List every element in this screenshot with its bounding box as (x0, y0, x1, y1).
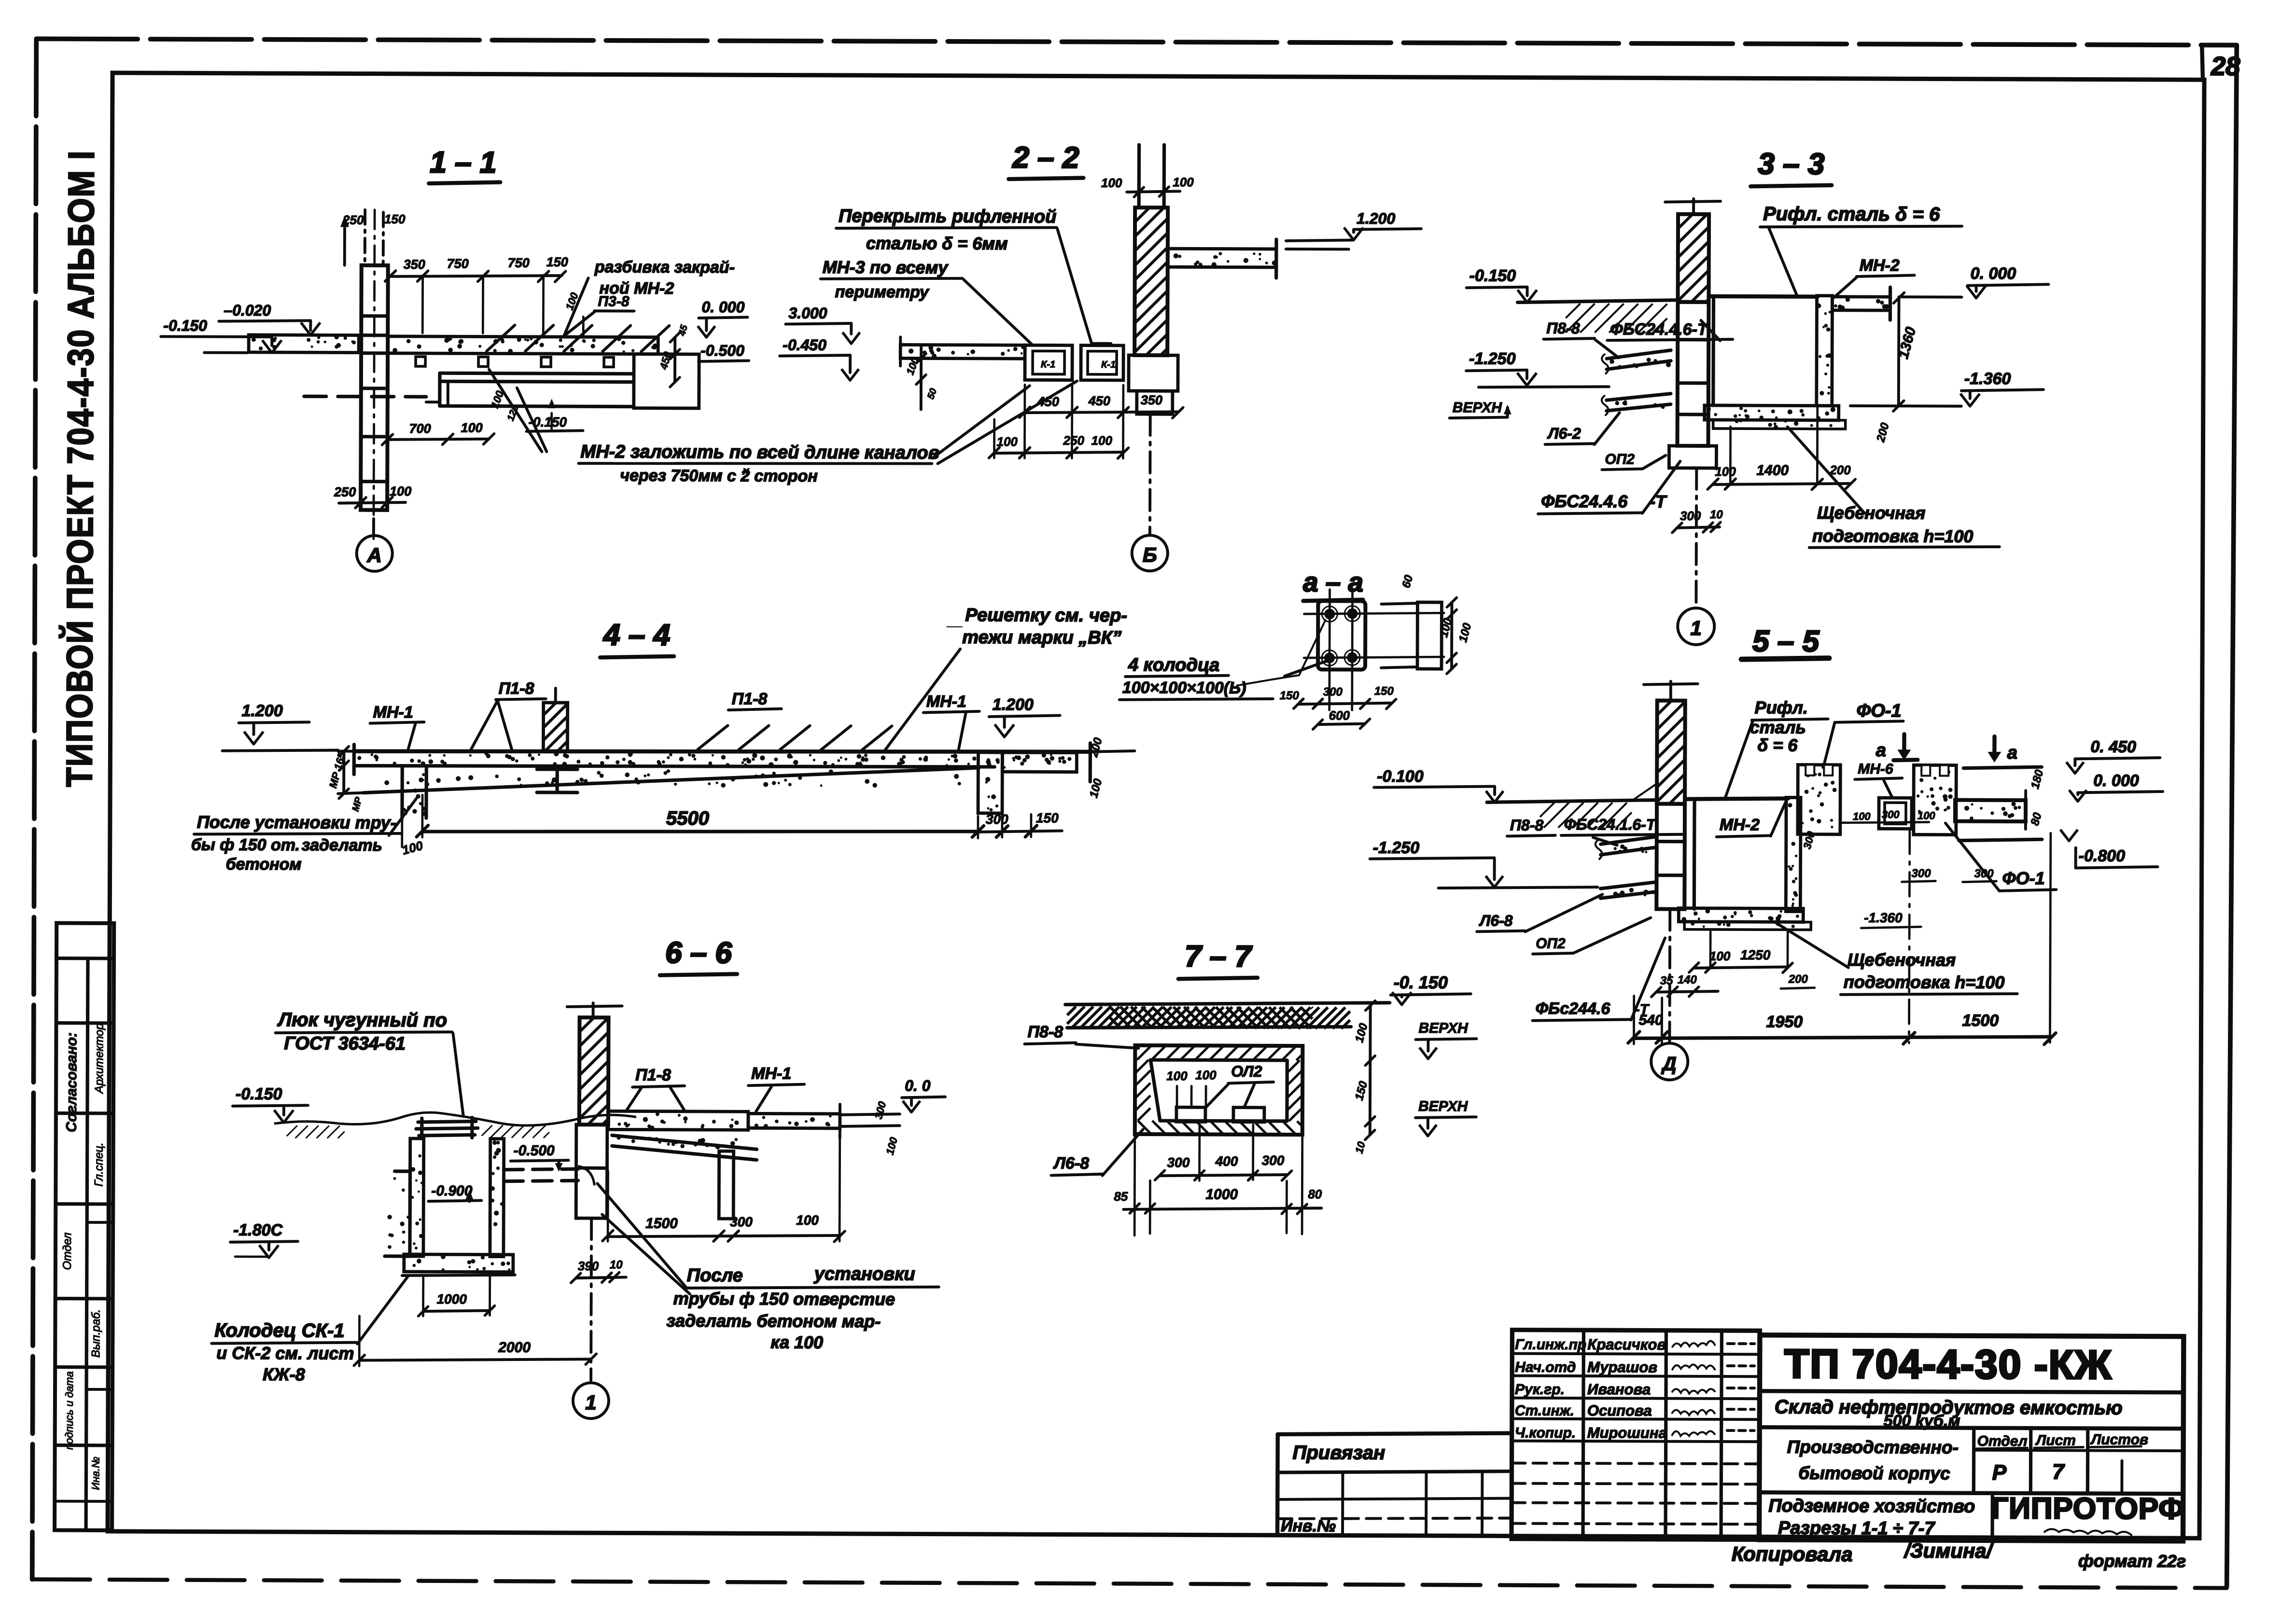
svg-text:1250: 1250 (1740, 947, 1771, 962)
pit left wall line (1711, 296, 1715, 405)
svg-text:подпись и дата: подпись и дата (63, 1371, 76, 1450)
svg-text:Копировала: Копировала (1732, 1542, 1853, 1566)
wall foundation blocks ФБС (1678, 302, 1709, 446)
bottom tapering floor line (363, 766, 979, 795)
svg-text:Мурашов: Мурашов (1587, 1359, 1657, 1375)
svg-text:и СК-2 см. лист: и СК-2 см. лист (216, 1343, 354, 1363)
svg-text:100: 100 (1853, 810, 1871, 822)
dim 600 (1318, 723, 1365, 724)
right vertical dim bracket (673, 337, 676, 382)
svg-text:ТИПОВОЙ ПРОЕКТ 704-4-30 АЛ: ТИПОВОЙ ПРОЕКТ 704-4-30 АЛЬБОМ I (58, 150, 102, 787)
section 2-2 right slab (1168, 249, 1276, 267)
bolts (1324, 609, 1335, 619)
svg-text:250: 250 (334, 485, 356, 499)
svg-text:100: 100 (1092, 433, 1113, 448)
svg-text:Рифл. сталь δ = 6: Рифл. сталь δ = 6 (1763, 203, 1940, 225)
svg-text:–0.020: –0.020 (224, 302, 271, 319)
svg-text:КЖ-8: КЖ-8 (263, 1364, 305, 1384)
svg-text:После: После (687, 1265, 743, 1286)
svg-text:Архитектор: Архитектор (93, 1023, 106, 1094)
wall axis centerline + circle Б (1148, 414, 1152, 534)
svg-text:/Зимина/: /Зимина/ (1903, 1539, 1994, 1562)
svg-text:Щебеночная: Щебеночная (1847, 950, 1956, 970)
title block main box (1759, 1335, 2183, 1541)
svg-text:6 – 6: 6 – 6 (665, 936, 732, 970)
bottom dim row 540 1950 1500 (1634, 1035, 2050, 1040)
svg-text:-1.250: -1.250 (1469, 349, 1516, 368)
svg-text:ВЕРХН: ВЕРХН (1453, 400, 1503, 416)
hatched wall stub above slab (543, 703, 567, 751)
interior boxes (1176, 1107, 1205, 1122)
left upper slab (slanted) (1607, 350, 1671, 359)
svg-text:подготовка h=100: подготовка h=100 (1812, 526, 1973, 546)
personnel table date column dashes (1727, 1342, 1754, 1345)
dim row 100 1250 (1694, 967, 1788, 969)
base plate with 4 bolt holes (1318, 601, 1365, 669)
side view plate (1417, 602, 1441, 669)
svg-text:-0.150: -0.150 (236, 1085, 282, 1103)
svg-text:1950: 1950 (1766, 1013, 1803, 1031)
left upper slanted slab (1601, 836, 1657, 844)
svg-text:-0.900: -0.900 (431, 1183, 472, 1199)
section 6-6 wall hatched above (579, 1017, 609, 1124)
svg-text:5 – 5: 5 – 5 (1752, 625, 1820, 658)
svg-text:П1-8: П1-8 (732, 690, 768, 708)
soil hatch under ground (1566, 304, 1580, 318)
vertical dim 1360 (1897, 298, 1901, 406)
svg-text:Ст.инж.: Ст.инж. (1515, 1403, 1574, 1419)
bolt centerlines (1304, 612, 1444, 614)
svg-text:трубы ф 150 отверстие: трубы ф 150 отверстие (673, 1289, 896, 1309)
ground line (1065, 1001, 1390, 1005)
svg-text:П3-8: П3-8 (598, 293, 629, 309)
svg-text:2000: 2000 (498, 1340, 531, 1356)
svg-text:ГИПРОТОРФ: ГИПРОТОРФ (1991, 1492, 2184, 1526)
svg-text:85: 85 (1114, 1189, 1128, 1204)
svg-text:Гл.спец.: Гл.спец. (92, 1142, 105, 1186)
svg-text:300: 300 (1882, 808, 1900, 820)
svg-text:ФО-1: ФО-1 (2002, 868, 2044, 888)
svg-text:150: 150 (1280, 689, 1300, 702)
svg-text:300: 300 (1912, 867, 1931, 880)
svg-text:100: 100 (1715, 464, 1736, 479)
bottom row подземное хозяйство (1990, 1493, 1994, 1541)
svg-text:После установки тру-: После установки тру- (197, 812, 396, 833)
svg-text:-0.100: -0.100 (1377, 767, 1424, 786)
dim 2000 (359, 1359, 591, 1361)
left vertical dims (342, 751, 345, 794)
svg-text:500 куб.м: 500 куб.м (1884, 1412, 1960, 1430)
svg-text:750: 750 (447, 256, 469, 271)
section 4-4 top slab (354, 750, 1090, 754)
top right slab (1832, 297, 1890, 310)
right upper slab (608, 1111, 748, 1130)
svg-text:100: 100 (461, 420, 483, 435)
svg-text:Перекрыть рифленной: Перекрыть рифленной (839, 206, 1056, 227)
well right wall (490, 1139, 504, 1257)
svg-text:МН-1: МН-1 (751, 1064, 791, 1083)
svg-text:а: а (2007, 743, 2017, 763)
svg-text:Гл.инж.пр: Гл.инж.пр (1515, 1337, 1586, 1353)
svg-text:Л6-2: Л6-2 (1547, 425, 1581, 442)
dim 300 10 under wall (1677, 527, 1720, 528)
anchor plates МН-2 under slab (416, 357, 425, 366)
svg-text:Инв.№: Инв.№ (1281, 1517, 1336, 1535)
svg-text:-0.500: -0.500 (700, 342, 744, 359)
svg-text:периметру: периметру (835, 283, 930, 302)
pit structure (1685, 798, 1788, 800)
svg-text:300: 300 (1262, 1153, 1285, 1168)
axis centerline + circle Д (1668, 909, 1671, 1042)
svg-text:-0.150: -0.150 (163, 317, 207, 334)
foundation block ФО-1 left (1798, 765, 1840, 834)
svg-text:150: 150 (1374, 685, 1394, 698)
svg-text:100: 100 (1173, 175, 1194, 189)
bottom dim row 85 1000 80 (1123, 1208, 1321, 1210)
svg-text:350: 350 (1141, 393, 1162, 407)
bottom dim row 100 1400 200 (1713, 483, 1850, 485)
svg-text:МН-3 по всему: МН-3 по всему (823, 257, 949, 278)
svg-text:450: 450 (1088, 394, 1110, 408)
svg-text:1.200: 1.200 (242, 702, 283, 720)
svg-text:2 – 2: 2 – 2 (1012, 141, 1079, 174)
leader from note to channels (1057, 228, 1092, 343)
svg-text:П1-8: П1-8 (635, 1066, 671, 1084)
svg-text:МН-2: МН-2 (1860, 256, 1900, 275)
left approval stamp table (55, 923, 114, 1530)
svg-text:1000: 1000 (437, 1291, 467, 1306)
svg-text:П8-8: П8-8 (1546, 319, 1580, 337)
soil hatch marks (287, 1125, 297, 1136)
svg-text:1000: 1000 (1205, 1186, 1238, 1202)
svg-text:-1.360: -1.360 (1964, 370, 2011, 388)
svg-text:Красичков: Красичков (1587, 1336, 1666, 1353)
svg-text:а: а (1876, 740, 1886, 761)
dashed pipe line (304, 395, 426, 399)
svg-text:100: 100 (796, 1213, 819, 1228)
svg-text:250: 250 (1063, 433, 1085, 447)
svg-text:МН-1: МН-1 (926, 693, 966, 711)
dim 700 100 below (388, 439, 489, 440)
left lower slanted slab (1600, 882, 1656, 888)
dims 300 150 right (996, 826, 1008, 837)
svg-text:δ = 6: δ = 6 (1757, 735, 1798, 755)
svg-text:МН-1: МН-1 (373, 703, 413, 722)
svg-text:Вып.раб.: Вып.раб. (89, 1309, 102, 1358)
svg-text:К-1: К-1 (1041, 359, 1055, 370)
right pit wall (978, 752, 1002, 813)
svg-text:3.000: 3.000 (788, 305, 827, 322)
svg-text:700: 700 (409, 421, 431, 436)
right upper slab continues thinner (748, 1113, 840, 1128)
section 1-1 column axis centerline (374, 210, 375, 539)
svg-text:150: 150 (546, 255, 568, 269)
svg-text:Привязан: Привязан (1293, 1442, 1385, 1464)
wall lines above (1137, 145, 1141, 208)
channel interior (1150, 1060, 1287, 1121)
svg-text:300: 300 (730, 1214, 753, 1229)
well left wall (410, 1138, 424, 1256)
svg-text:А: А (367, 544, 382, 567)
leader to pipe (597, 1183, 686, 1287)
leader from note to anchor plates (489, 370, 542, 452)
svg-text:-1.250: -1.250 (1373, 839, 1420, 857)
I-beam below slab (537, 767, 577, 771)
svg-text:100: 100 (1195, 1068, 1217, 1082)
svg-text:ОП2: ОП2 (1605, 451, 1635, 467)
svg-text:ОЛ2: ОЛ2 (1231, 1063, 1262, 1080)
svg-text:Иванова: Иванова (1587, 1381, 1651, 1398)
svg-text:х: х (742, 464, 750, 477)
channel box 1 (1025, 345, 1072, 380)
svg-text:ФБС24.4.6-Т: ФБС24.4.6-Т (1610, 320, 1709, 339)
svg-text:7 – 7: 7 – 7 (1185, 940, 1253, 973)
svg-text:10: 10 (1710, 508, 1723, 521)
svg-text:150: 150 (384, 212, 406, 226)
svg-text:Л6-8: Л6-8 (1479, 912, 1513, 929)
svg-text:заделать бетоном мар-: заделать бетоном мар- (666, 1311, 881, 1331)
channel right sump box (634, 354, 699, 408)
svg-text:Подземное хозяйство: Подземное хозяйство (1768, 1496, 1975, 1516)
svg-text:Осипова: Осипова (1587, 1402, 1652, 1419)
svg-text:300: 300 (1974, 867, 1994, 880)
svg-text:ГОСТ 3634-61: ГОСТ 3634-61 (284, 1033, 406, 1054)
svg-text:Лист: Лист (2035, 1432, 2076, 1448)
soil hatched band (1067, 1007, 1076, 1015)
svg-text:Рук.гр.: Рук.гр. (1515, 1382, 1565, 1398)
svg-text:400: 400 (1215, 1154, 1238, 1169)
bottom dim row 300 400 300 (1160, 1174, 1287, 1176)
svg-text:100: 100 (1709, 949, 1731, 963)
channel box 2 (1081, 346, 1123, 380)
well bottom slab (404, 1254, 513, 1272)
column bottom dims 250 100 (339, 502, 406, 503)
svg-text:28: 28 (2211, 52, 2240, 81)
svg-text:Мирошина: Мирошина (1587, 1424, 1667, 1442)
svg-text:тежи марки „ВК”: тежи марки „ВК” (962, 627, 1121, 648)
right vertical dim chain (1369, 1006, 1372, 1135)
section 1-1 left floor slab (249, 335, 359, 353)
svg-text:1 – 1: 1 – 1 (430, 146, 496, 179)
right vertical dims 100 100 (1450, 602, 1453, 669)
svg-text:сталью δ = 6мм: сталью δ = 6мм (866, 233, 1008, 253)
dim row 1500 300 100 (608, 1235, 840, 1237)
channel box outer (1135, 1045, 1303, 1135)
svg-text:200: 200 (1829, 463, 1851, 477)
dim 390 10 under wall (576, 1277, 626, 1278)
svg-text:Согласовано:: Согласовано: (64, 1032, 80, 1132)
svg-text:Решетку см. чер-: Решетку см. чер- (965, 605, 1127, 626)
svg-text:бы ф 150 от.: бы ф 150 от. (191, 835, 300, 854)
svg-text:100: 100 (1166, 1069, 1188, 1083)
soil hatch (1540, 803, 1554, 817)
svg-text:-0.500: -0.500 (514, 1143, 555, 1159)
svg-text:ВЕРХН: ВЕРХН (1418, 1098, 1469, 1114)
svg-text:ВЕРХН: ВЕРХН (1418, 1020, 1469, 1036)
svg-text:600: 600 (1329, 708, 1350, 722)
svg-text:ФБС24.1.6-Т: ФБС24.1.6-Т (1564, 816, 1657, 833)
svg-text:ТП: ТП (1784, 1341, 1840, 1386)
dim row 35 140 200 (1656, 991, 1718, 992)
lower slanted slab (612, 1135, 757, 1149)
svg-text:ФО-1: ФО-1 (1857, 701, 1902, 721)
section 2-2 left slab (900, 345, 1025, 359)
svg-text:разбивка закрай-: разбивка закрай- (594, 258, 735, 277)
svg-text:80: 80 (1308, 1187, 1322, 1201)
svg-text:350: 350 (404, 257, 425, 272)
slab hatch marks П3-8 panels (487, 325, 515, 351)
ground line left (1487, 799, 1657, 803)
section 1-1 precast column (361, 265, 388, 510)
svg-text:П8-8: П8-8 (1027, 1023, 1063, 1041)
svg-text:Л6-8: Л6-8 (1053, 1154, 1090, 1172)
svg-text:0. 000: 0. 000 (701, 298, 744, 316)
svg-text:10: 10 (610, 1258, 623, 1271)
wall foundation blocks (1129, 355, 1178, 391)
channel walls hatched (1137, 1046, 1150, 1060)
svg-text:П1-8: П1-8 (499, 680, 534, 698)
svg-text:Р: Р (1992, 1461, 2007, 1485)
svg-text:140: 140 (1678, 973, 1697, 986)
svg-text:0. 0: 0. 0 (905, 1077, 931, 1094)
pit top edge (1709, 294, 1818, 299)
svg-text:5500: 5500 (666, 808, 709, 829)
svg-text:0. 000: 0. 000 (2093, 772, 2139, 790)
svg-text:450: 450 (1037, 394, 1059, 409)
svg-text:3 – 3: 3 – 3 (1758, 147, 1824, 180)
svg-text:-1.360: -1.360 (1864, 910, 1903, 925)
svg-text:7: 7 (2052, 1460, 2065, 1484)
svg-text:сталь: сталь (1750, 717, 1806, 737)
svg-text:750: 750 (508, 256, 530, 270)
svg-text:ФБС24.4.6: ФБС24.4.6 (1541, 491, 1628, 512)
svg-text:-0.800: -0.800 (2079, 847, 2126, 865)
svg-text:заделать: заделать (302, 836, 382, 855)
lower channel walls (440, 373, 631, 374)
svg-text:1: 1 (1691, 617, 1702, 639)
leader МН-3 (963, 279, 1033, 345)
bottom dims 150 300 150 (1299, 703, 1391, 705)
svg-text:1.200: 1.200 (993, 695, 1034, 714)
svg-text:ка 100: ка 100 (770, 1332, 823, 1352)
svg-text:1: 1 (585, 1391, 597, 1414)
axis circle А (372, 519, 375, 536)
svg-text:Производственно-: Производственно- (1787, 1437, 1959, 1457)
svg-text:1.200: 1.200 (1357, 209, 1395, 227)
svg-text:через 750мм с 2: через 750мм с 2 (620, 466, 750, 485)
svg-text:К-1: К-1 (1101, 360, 1116, 370)
svg-text:Ч.копир.: Ч.копир. (1515, 1425, 1576, 1441)
svg-text:Отдел: Отдел (61, 1232, 74, 1270)
manhole rings (418, 1121, 476, 1122)
svg-text:Рифл.: Рифл. (1755, 697, 1808, 717)
svg-text:1500: 1500 (645, 1216, 678, 1232)
svg-text:300: 300 (1680, 509, 1701, 523)
wall foundation below (1656, 804, 1685, 909)
title block personnel table (1511, 1330, 1760, 1540)
pit right wall (concrete) (1817, 296, 1833, 406)
svg-text:МН-2 заложить по всей длине ка: МН-2 заложить по всей длине каналов (580, 442, 939, 463)
svg-text:1500: 1500 (1962, 1012, 1999, 1030)
svg-text:Б: Б (1143, 543, 1157, 566)
svg-text:бетоном: бетоном (226, 855, 302, 874)
support pier under lower slab (719, 1151, 733, 1219)
svg-text:установки: установки (813, 1264, 915, 1285)
svg-text:-0. 150: -0. 150 (1394, 972, 1448, 992)
long leader to section 2-2 channels (933, 386, 1029, 458)
svg-text:300: 300 (986, 812, 1008, 827)
wall axis + circle 1 (591, 1218, 591, 1380)
left lower slab (slanted) (1607, 393, 1671, 400)
vertical dim 100 between slabs (920, 345, 923, 409)
svg-text:Д: Д (1661, 1054, 1677, 1075)
outer border frame (36, 38, 2237, 46)
svg-text:100: 100 (996, 434, 1018, 449)
gravel prep layer (1713, 420, 1846, 429)
svg-text:35: 35 (1660, 974, 1673, 987)
svg-text:540: 540 (1639, 1012, 1663, 1028)
svg-text:формат 22г: формат 22г (2078, 1551, 2186, 1571)
svg-text:П8-8: П8-8 (1510, 817, 1544, 834)
svg-text:-1.80С: -1.80С (233, 1221, 283, 1239)
pit bottom slab (1705, 405, 1839, 420)
wall centerline + axis circle 1 (1694, 468, 1698, 606)
svg-text:704-4-30 -КЖ: 704-4-30 -КЖ (1852, 1341, 2112, 1388)
pipe elbow at wall (578, 1166, 594, 1185)
dim row above slab 350 750 750 150 (391, 275, 562, 277)
lower berm line right (1959, 839, 2042, 841)
ground wavy line (274, 1112, 636, 1126)
section 3-3 wall hatched (1678, 214, 1709, 302)
production block row (1972, 1428, 1976, 1493)
svg-text:сторон: сторон (754, 467, 818, 485)
svg-text:ФБс244.6: ФБс244.6 (1536, 999, 1611, 1018)
left slab end (352, 745, 356, 775)
dim row 450 450 350 (1025, 411, 1178, 413)
right end slab (1002, 752, 1077, 772)
svg-text:4 – 4: 4 – 4 (602, 618, 670, 652)
foundation block ФО-1 right (1914, 765, 1956, 834)
svg-text:-0.150: -0.150 (1469, 266, 1516, 285)
svg-text:Колодец СК-1: Колодец СК-1 (214, 1320, 344, 1342)
svg-text:МН-2: МН-2 (1720, 816, 1760, 834)
svg-text:Инв.№: Инв.№ (89, 1457, 101, 1490)
channel between blocks (1879, 798, 1912, 829)
svg-text:300: 300 (1167, 1155, 1190, 1170)
svg-text:подготовка h=100: подготовка h=100 (1844, 972, 2005, 992)
pit bottom slab (1679, 908, 1803, 922)
svg-text:Люк чугунный по: Люк чугунный по (277, 1009, 447, 1031)
gravel prep (1684, 922, 1811, 930)
right slab (1955, 800, 2026, 821)
section 1-1 right floor slab (388, 336, 658, 354)
svg-text:150: 150 (1036, 810, 1059, 825)
left trapezoid support (385, 1171, 410, 1256)
section 5-5 wall hatched (1657, 701, 1685, 804)
svg-text:ОП2: ОП2 (1536, 936, 1566, 952)
leader from колодец to well (357, 1277, 407, 1344)
svg-text:Щебеночная: Щебеночная (1817, 503, 1925, 523)
svg-text:0. 000: 0. 000 (1971, 264, 2016, 283)
wall foundation blocks below (576, 1124, 607, 1168)
svg-text:МН-6: МН-6 (1858, 761, 1893, 777)
svg-text:Разрезы 1-1 ÷ 7-7: Разрезы 1-1 ÷ 7-7 (1778, 1518, 1935, 1539)
dim row 100 250 100 (994, 452, 1123, 454)
svg-text:100: 100 (1917, 809, 1936, 821)
svg-text:Нач.отд: Нач.отд (1515, 1360, 1576, 1375)
svg-text:бытовой корпус: бытовой корпус (1798, 1463, 1950, 1484)
page number cell divider (2202, 46, 2203, 80)
